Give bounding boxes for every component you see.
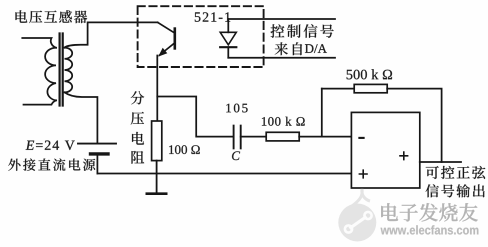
- label: voltage transformer 电压互感器: [15, 10, 27, 22]
- label: E=24 V: [26, 141, 75, 150]
- label: 521-1: [195, 12, 230, 21]
- phototransistor emitter arrowhead: [158, 48, 167, 57]
- wire: emitter branch to capacitor: [157, 97, 233, 137]
- wire: secondary bottom to battery: [65, 92, 98, 142]
- capacitor C plate right: [240, 126, 242, 149]
- op-amp non-inverting input marker: [359, 170, 367, 178]
- resistor 100k: [266, 132, 299, 141]
- phototransistor base bar: [174, 29, 177, 49]
- op-amp output polarity marker: [400, 152, 408, 160]
- wire: control input top: [228, 18, 335, 20]
- resistor 100 ohm (divider): [152, 121, 162, 161]
- phototransistor emitter line: [159, 43, 174, 55]
- wire: secondary top to collector node: [65, 22, 158, 47]
- wire: feedback left: [322, 88, 354, 90]
- wire: resistor bottom through rail to ground: [156, 161, 158, 194]
- LED anode stub: [227, 19, 229, 32]
- phototransistor collector line: [158, 22, 175, 33]
- label: D/A: [305, 44, 327, 53]
- wire: control input bottom: [228, 57, 335, 59]
- wire: 100k to op-amp inverting input: [299, 136, 351, 138]
- LED cathode bar: [220, 46, 236, 48]
- op-amp U1 body: [351, 112, 419, 188]
- transformer T1 primary winding: [45, 48, 56, 101]
- label: 100 k ohm: [262, 117, 305, 126]
- ground bar: [147, 192, 166, 195]
- wire: op-amp output: [420, 161, 461, 163]
- label: controllable sine 可控正弦: [426, 166, 439, 179]
- wire: feedback tap down to inverting node: [321, 89, 323, 137]
- optocoupler 521-1 dashed package outline: [138, 6, 264, 67]
- watermark url www.elecfans.com: [381, 225, 479, 234]
- wire: capacitor to 100k resistor: [241, 136, 266, 138]
- wire: battery negative to bottom rail: [96, 156, 98, 174]
- watermark elecfans logo: [338, 189, 376, 242]
- battery E positive plate: [78, 143, 116, 145]
- label: C: [232, 151, 240, 160]
- label: 500 k ohm: [347, 69, 392, 79]
- watermark text 电子发烧友: [381, 203, 479, 223]
- LED triangle: [220, 32, 236, 45]
- op-amp inverting input marker: [359, 137, 363, 139]
- capacitor C plate left: [233, 126, 235, 149]
- transformer T1 primary bottom lead: [24, 100, 57, 104]
- wire: bottom rail to op-amp non-inverting input: [97, 173, 351, 175]
- label: from D/A 来自: [275, 42, 288, 55]
- label: control signal 控制信号: [271, 24, 285, 37]
- battery E negative plate: [91, 152, 109, 155]
- transformer T1 core: [60, 34, 63, 106]
- label: divider resistor 分压电阻 (vertical): [131, 91, 144, 104]
- label: 100 ohm: [169, 145, 200, 154]
- transformer T1 primary top lead: [22, 38, 56, 48]
- transformer T1 secondary winding: [65, 48, 73, 93]
- label: signal output 信号输出: [426, 184, 439, 197]
- wire: feedback right to output: [387, 89, 441, 162]
- wire: emitter down to divider resistor: [156, 56, 158, 122]
- resistor 500k: [354, 84, 387, 92]
- LED cathode stub: [227, 47, 229, 58]
- label: external DC supply 外接直流电源: [8, 159, 20, 171]
- label: 105: [226, 104, 247, 113]
